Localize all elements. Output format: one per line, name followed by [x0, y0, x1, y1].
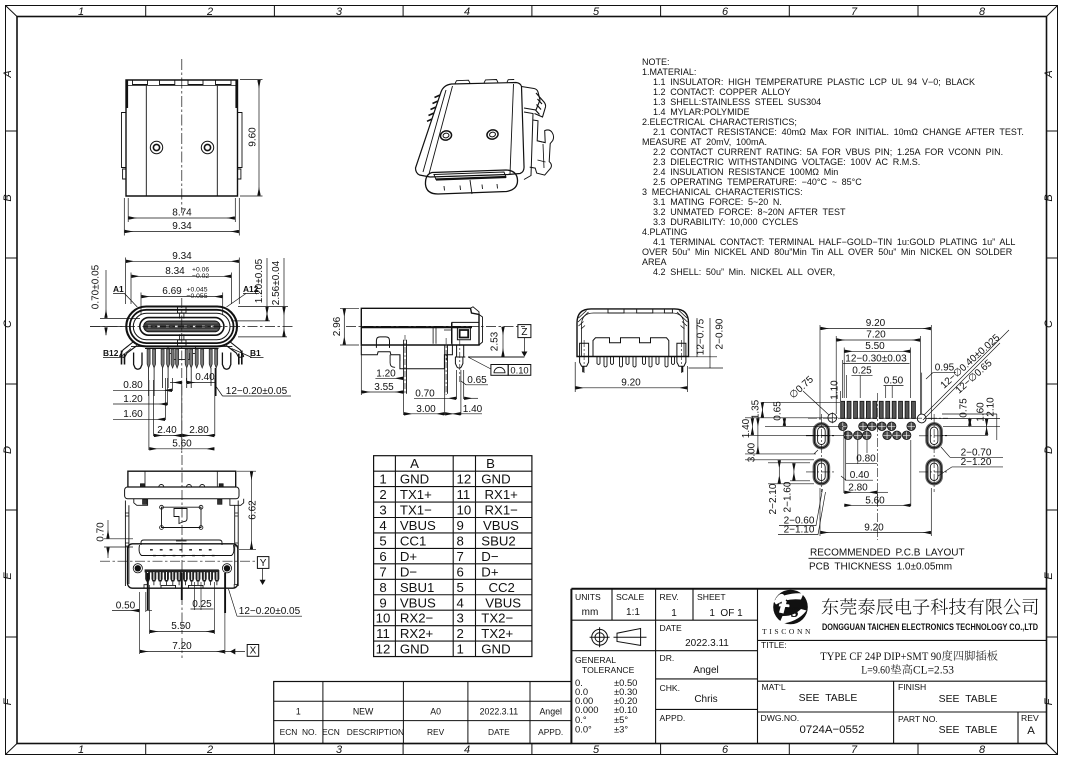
- svg-text:VBUS: VBUS: [400, 595, 436, 610]
- smt legs: [147, 349, 218, 368]
- svg-text:3.1 MATING FORCE: 5~20 N.: 3.1 MATING FORCE: 5~20 N.: [653, 197, 782, 207]
- svg-text:4.1 TERMINAL CONTACT: TERMI: 4.1 TERMINAL CONTACT: TERMINAL HALF−GOLD…: [653, 237, 1015, 247]
- side rails: [125, 501, 238, 587]
- svg-text:1:1: 1:1: [626, 607, 640, 618]
- CJK-TEXT: [822, 598, 1038, 615]
- right flange: [238, 113, 243, 180]
- right ext lines: [689, 318, 724, 368]
- svg-text:2−1.60: 2−1.60: [783, 481, 794, 512]
- svg-text:3.2 UNMATED FORCE: 8~20N A: 3.2 UNMATED FORCE: 8~20N AFTER TEST: [653, 207, 846, 217]
- VIEW-TOPFRONT: [122, 59, 263, 236]
- svg-text:1 OF 1: 1 OF 1: [709, 608, 743, 619]
- dim 2.56±0.04 right: [238, 258, 287, 337]
- thick corner strokes: [127, 80, 237, 108]
- svg-text:0.40: 0.40: [195, 372, 215, 383]
- svg-text:1.1 INSULATOR: HIGH TEMPERA: 1.1 INSULATOR: HIGH TEMPERATURE PLASTIC …: [653, 77, 975, 87]
- svg-text:NEW: NEW: [353, 707, 374, 717]
- svg-text:9: 9: [457, 518, 464, 533]
- svg-text:D+: D+: [400, 549, 418, 564]
- VIEW-ISO: [416, 80, 554, 195]
- svg-text:ECN NO.: ECN NO.: [280, 727, 317, 737]
- svg-text:2.10: 2.10: [986, 397, 997, 417]
- datum Z flag: [468, 325, 531, 357]
- svg-text:6: 6: [457, 564, 464, 579]
- svg-text:0.0°: 0.0°: [575, 724, 592, 735]
- side legs: [580, 343, 686, 366]
- svg-text:MATʻL: MATʻL: [762, 682, 786, 692]
- svg-text:−0.02: −0.02: [192, 273, 209, 280]
- svg-text:1.3 SHELL:STAINLESS STEEL S: 1.3 SHELL:STAINLESS STEEL SUS304: [653, 97, 821, 107]
- svg-text:11: 11: [376, 626, 390, 641]
- svg-text:DATE: DATE: [660, 623, 683, 633]
- dim 0.65: [461, 381, 488, 385]
- corner hatch left: [578, 311, 589, 330]
- svg-text:C: C: [2, 320, 14, 328]
- svg-text:2022.3.11: 2022.3.11: [480, 707, 519, 717]
- svg-text:6: 6: [722, 744, 729, 756]
- svg-text:3.00: 3.00: [747, 442, 758, 462]
- svg-text:1.10: 1.10: [830, 380, 841, 400]
- svg-text:2.5 OPERATING TEMPERATURE:: 2.5 OPERATING TEMPERATURE: −40°C ~ 85°C: [653, 177, 862, 187]
- rivet circles: [150, 141, 213, 153]
- wing latches: [134, 499, 244, 506]
- iso rivet ellipses: [439, 130, 452, 142]
- svg-text:2.40: 2.40: [157, 425, 177, 436]
- centerline: [181, 59, 183, 213]
- svg-text:1: 1: [671, 608, 677, 619]
- dip pins: [404, 340, 448, 394]
- svg-text:RX1−: RX1−: [485, 503, 519, 518]
- svg-text:FINISH: FINISH: [898, 682, 926, 692]
- svg-text:OVER 50u” Min NICKEL AND: OVER 50u” Min NICKEL AND 80u”Min Tin ALL…: [642, 247, 1013, 257]
- svg-text:SEE TABLE: SEE TABLE: [939, 725, 998, 736]
- svg-text:SEE TABLE: SEE TABLE: [799, 693, 858, 704]
- top band: [128, 471, 236, 487]
- svg-text:0.65: 0.65: [773, 401, 784, 421]
- svg-text:RX1+: RX1+: [485, 487, 519, 502]
- svg-text:1: 1: [296, 707, 301, 717]
- svg-text:1.35: 1.35: [751, 399, 762, 419]
- REV-TABLE: [274, 682, 572, 744]
- svg-text:2−1.10: 2−1.10: [784, 525, 815, 536]
- VIEW-SIDE: [332, 307, 531, 415]
- svg-text:2.80: 2.80: [848, 482, 868, 493]
- shell side outline: [361, 308, 479, 345]
- dim 2.96: [340, 308, 359, 345]
- contacts dashes: [148, 325, 216, 327]
- svg-text:5: 5: [593, 6, 600, 18]
- right small dims: [926, 414, 1000, 440]
- svg-text:4.PLATING: 4.PLATING: [642, 227, 687, 237]
- svg-text:D−: D−: [400, 564, 418, 579]
- svg-text:PCB THICKNESS 1.0±0.05mm: PCB THICKNESS 1.0±0.05mm: [809, 562, 952, 573]
- through holes row2: [844, 431, 911, 440]
- svg-text:NOTE:: NOTE:: [642, 57, 670, 67]
- svg-text:Chris: Chris: [694, 694, 717, 705]
- svg-text:5.60: 5.60: [865, 495, 885, 506]
- svg-text:0.10: 0.10: [510, 364, 528, 375]
- svg-text:A: A: [2, 70, 14, 78]
- insulator body: [593, 338, 669, 357]
- iso body outline: [416, 83, 525, 178]
- svg-text:2: 2: [379, 487, 386, 502]
- tongue thick line: [361, 326, 472, 328]
- svg-text:B: B: [486, 456, 495, 471]
- dim 9.20 pcbtop: [820, 325, 931, 420]
- svg-text:7.20: 7.20: [172, 641, 192, 652]
- svg-text:UNITS: UNITS: [575, 592, 601, 602]
- dim 0.95: [922, 372, 956, 414]
- center seam ribs: [178, 307, 187, 347]
- middle square with corner circles: [162, 507, 202, 527]
- top-right step: [471, 307, 483, 345]
- svg-text:8.74: 8.74: [172, 208, 192, 219]
- side wings: [120, 342, 244, 365]
- svg-text:GND: GND: [400, 472, 429, 487]
- centerline side: [346, 325, 525, 327]
- profile tolerance frame: [468, 357, 531, 375]
- svg-text:SCALE: SCALE: [616, 592, 644, 602]
- svg-text:Angel: Angel: [539, 707, 562, 717]
- svg-text:9.20: 9.20: [864, 523, 884, 534]
- svg-text:5: 5: [593, 744, 600, 756]
- svg-text:1.4 MYLAR:POLYMIDE: 1.4 MYLAR:POLYMIDE: [653, 107, 750, 117]
- svg-text:s: s: [790, 600, 799, 622]
- svg-text:D: D: [1043, 446, 1055, 454]
- svg-text:E: E: [2, 572, 14, 580]
- svg-text:TYPE CF 24P DIP+SMT 90: TYPE CF 24P DIP+SMT 90: [820, 650, 941, 663]
- svg-text:3 MECHANICAL CHARACTERISTICS: 3 MECHANICAL CHARACTERISTICS:: [642, 187, 803, 197]
- svg-text:DATE: DATE: [488, 727, 510, 737]
- svg-text:5.60: 5.60: [172, 439, 192, 450]
- dim 6.62: [237, 471, 256, 549]
- svg-text:L=9.60: L=9.60: [861, 664, 890, 677]
- svg-text:3: 3: [379, 503, 386, 518]
- svg-text:D+: D+: [481, 564, 499, 579]
- datum dots: [135, 565, 141, 571]
- svg-text:2: 2: [206, 744, 213, 756]
- dim 1.20±0.05 right: [231, 258, 288, 321]
- svg-text:MEASURE AT 20mV, 100mA.: MEASURE AT 20mV, 100mA.: [642, 137, 767, 147]
- corner oval pads: [814, 424, 941, 484]
- svg-text:3.55: 3.55: [374, 382, 394, 393]
- svg-text:D: D: [2, 446, 14, 454]
- left lower dims: [745, 460, 826, 535]
- svg-text:7: 7: [851, 6, 858, 18]
- lower block: [128, 544, 238, 588]
- iso seam lines: [423, 84, 514, 174]
- left flange: [122, 113, 127, 180]
- position circles: [827, 412, 926, 423]
- svg-text:DWG.NO.: DWG.NO.: [761, 713, 800, 723]
- svg-text:VBUS: VBUS: [483, 518, 519, 533]
- svg-text:CHK.: CHK.: [660, 683, 681, 693]
- dim 9.34 top: [126, 258, 240, 305]
- svg-text:6: 6: [722, 6, 729, 18]
- svg-text:2.2 CONTACT CURRENT RATING:: 2.2 CONTACT CURRENT RATING: 5A FOR VBUS …: [653, 147, 1003, 157]
- left dims: [745, 402, 844, 454]
- iso mouth inner band: [434, 172, 506, 180]
- dip pins thin: [149, 368, 211, 396]
- svg-text:DONGGUAN TAICHEN ELECTRONICS T: DONGGUAN TAICHEN ELECTRONICS TECHNOLOGY …: [822, 622, 1038, 633]
- svg-text:5: 5: [379, 533, 386, 548]
- teeth row: [145, 569, 219, 572]
- svg-text:1.20: 1.20: [376, 368, 396, 379]
- svg-text:1.60: 1.60: [123, 409, 143, 420]
- teeth comb: [597, 357, 675, 368]
- svg-text:GND: GND: [481, 642, 510, 657]
- iso mouth pegs: [444, 180, 498, 194]
- centerlines: [181, 298, 183, 455]
- svg-text:7: 7: [379, 564, 386, 579]
- svg-text:4: 4: [464, 6, 470, 18]
- leg centerlines: [584, 340, 681, 375]
- svg-text:0.25: 0.25: [852, 365, 872, 376]
- svg-text:12−0.20±0.05: 12−0.20±0.05: [239, 606, 301, 617]
- svg-text:2−1.20: 2−1.20: [961, 457, 992, 468]
- dim 8.74: [128, 198, 235, 222]
- svg-text:11: 11: [457, 487, 471, 502]
- svg-text:2−0.90: 2−0.90: [715, 318, 726, 349]
- svg-text:Y: Y: [260, 558, 267, 569]
- dim 0.25: [852, 375, 873, 398]
- svg-text:2: 2: [206, 6, 213, 18]
- datum X: [247, 645, 259, 657]
- svg-text:2.96: 2.96: [332, 316, 343, 336]
- inner vertical lines: [146, 86, 217, 197]
- svg-text:8: 8: [979, 6, 986, 18]
- dim 12-0.20 bottom: [229, 589, 303, 616]
- svg-text:CC1: CC1: [400, 533, 426, 548]
- svg-text:VBUS: VBUS: [400, 518, 436, 533]
- dim 9.20 rear: [575, 362, 687, 392]
- thick ext stubs: [148, 573, 225, 613]
- svg-text:SEE TABLE: SEE TABLE: [939, 694, 998, 705]
- dim 6.69: [141, 293, 223, 316]
- svg-text:2.1 CONTACT RESISTANCE: 40m: 2.1 CONTACT RESISTANCE: 40mΩ Max FOR INI…: [653, 127, 1024, 137]
- bottom bracket: [361, 345, 452, 369]
- svg-text:APPD.: APPD.: [660, 713, 686, 723]
- svg-text:0.80: 0.80: [856, 453, 876, 464]
- svg-text:9.34: 9.34: [172, 221, 192, 232]
- tongue: [140, 318, 224, 336]
- dim 1.40: [445, 370, 482, 415]
- svg-text:±3°: ±3°: [614, 724, 628, 735]
- VIEW-FRONT: [90, 251, 293, 455]
- svg-text:2022.3.11: 2022.3.11: [685, 638, 729, 649]
- svg-text:1.20: 1.20: [123, 394, 143, 405]
- svg-text:3.00: 3.00: [416, 404, 436, 415]
- svg-text:5: 5: [457, 580, 464, 595]
- contact dash rows: [150, 549, 216, 551]
- svg-text:B: B: [1043, 194, 1055, 201]
- svg-text:2.53: 2.53: [490, 331, 501, 351]
- dim 2.53: [502, 327, 504, 357]
- svg-text:2−2.10: 2−2.10: [768, 483, 779, 514]
- iso top notches: [455, 80, 514, 84]
- svg-text:7: 7: [851, 744, 858, 756]
- svg-text:9: 9: [379, 595, 386, 610]
- dim 8.34: [131, 273, 232, 305]
- dim 7.20: [140, 592, 245, 654]
- svg-text:GENERAL: GENERAL: [575, 655, 616, 665]
- svg-text:1.40: 1.40: [741, 418, 752, 438]
- centerlines: [181, 455, 183, 658]
- svg-text:3: 3: [336, 6, 343, 18]
- corner hatch right: [677, 311, 688, 330]
- svg-text:9.20: 9.20: [866, 318, 886, 329]
- dim 1.20 side: [375, 377, 403, 379]
- big pegs: [134, 353, 142, 370]
- svg-text:CL=2.53: CL=2.53: [913, 664, 954, 677]
- svg-text:TX1+: TX1+: [400, 487, 432, 502]
- top edge tabs: [133, 80, 232, 85]
- svg-text:A: A: [1043, 70, 1055, 78]
- bottom feet: [161, 585, 203, 588]
- svg-text:C: C: [1043, 320, 1055, 328]
- svg-text:0.40: 0.40: [850, 470, 870, 481]
- svg-text:CC2: CC2: [489, 580, 515, 595]
- left bump: [376, 337, 389, 348]
- svg-text:1: 1: [78, 6, 84, 18]
- svg-text:mm: mm: [582, 607, 599, 618]
- svg-text:1.20±0.05: 1.20±0.05: [254, 258, 265, 303]
- svg-text:0.80: 0.80: [123, 380, 143, 391]
- svg-text:3: 3: [336, 744, 343, 756]
- svg-text:4: 4: [457, 595, 464, 610]
- svg-text:D−: D−: [481, 549, 499, 564]
- svg-text:SBU1: SBU1: [400, 580, 434, 595]
- svg-text:10: 10: [376, 611, 391, 626]
- through holes row1: [839, 422, 916, 431]
- svg-text:2.4 INSULATION RESISTANCE 1: 2.4 INSULATION RESISTANCE 100MΩ Min: [653, 167, 838, 177]
- svg-text:A: A: [410, 456, 419, 471]
- bottom center dims: [820, 431, 931, 536]
- shell oval outer: [126, 307, 237, 347]
- svg-text:12−0.30±0.03: 12−0.30±0.03: [845, 354, 907, 365]
- dim 5.50: [844, 348, 910, 399]
- label A1: [103, 284, 261, 358]
- dim 0.50: [884, 386, 904, 399]
- smt tab box: [452, 322, 479, 345]
- svg-text:Z: Z: [521, 327, 527, 338]
- svg-text:AREA: AREA: [642, 257, 667, 267]
- svg-text:0.65: 0.65: [467, 375, 487, 386]
- svg-text:TOLERANCE: TOLERANCE: [582, 665, 635, 675]
- svg-text:GND: GND: [481, 472, 510, 487]
- hole crosses: [839, 423, 915, 440]
- VIEW-REAR: [575, 309, 725, 392]
- svg-text:1: 1: [78, 744, 84, 756]
- svg-text:12: 12: [376, 642, 391, 657]
- svg-text:6: 6: [379, 549, 386, 564]
- svg-text:1.2 CONTACT: COPPER ALLOY: 1.2 CONTACT: COPPER ALLOY: [653, 87, 790, 97]
- svg-text:GND: GND: [400, 642, 429, 657]
- svg-text:1.MATERIAL:: 1.MATERIAL:: [642, 67, 696, 77]
- svg-text:4.2 SHELL: 50u” Min. NICKE: 4.2 SHELL: 50u” Min. NICKEL ALL OVER,: [653, 267, 835, 277]
- smt pads 12x: [841, 401, 916, 418]
- svg-text:2.ELECTRICAL CHARACTERISTICS;: 2.ELECTRICAL CHARACTERISTICS;: [642, 117, 797, 127]
- svg-text:TX2+: TX2+: [481, 626, 513, 641]
- svg-text:VBUS: VBUS: [485, 595, 521, 610]
- svg-text:DR.: DR.: [660, 653, 675, 663]
- svg-text:REV.: REV.: [660, 592, 679, 602]
- svg-text:9.20: 9.20: [621, 377, 641, 388]
- svg-text:12−0.75: 12−0.75: [696, 318, 707, 355]
- svg-text:ECN DESCRIPTION: ECN DESCRIPTION: [322, 727, 404, 737]
- dim 5.50: [149, 582, 214, 634]
- svg-text:0.70: 0.70: [96, 522, 107, 542]
- svg-text:2.56±0.04: 2.56±0.04: [271, 260, 282, 305]
- svg-text:1: 1: [379, 472, 386, 487]
- svg-text:0724A−0552: 0724A−0552: [800, 724, 865, 736]
- iso left serration: [427, 95, 440, 121]
- svg-text:8: 8: [979, 744, 986, 756]
- VIEW-BOTTOM: [96, 455, 303, 658]
- svg-text:6.62: 6.62: [248, 500, 259, 520]
- svg-text:0.70±0.05: 0.70±0.05: [91, 264, 102, 309]
- svg-text:4: 4: [464, 744, 470, 756]
- svg-text:RECOMMENDED P.C.B LAYOUT: RECOMMENDED P.C.B LAYOUT: [810, 548, 965, 559]
- dim 9.34: [124, 198, 239, 236]
- svg-text:A0: A0: [430, 707, 441, 717]
- svg-text:B1: B1: [250, 348, 261, 358]
- svg-text:0.25: 0.25: [192, 599, 212, 610]
- svg-text:0.50: 0.50: [884, 376, 904, 387]
- svg-text:B: B: [2, 194, 14, 201]
- svg-text:1.40: 1.40: [463, 404, 483, 415]
- datum Y: [257, 557, 269, 582]
- dim 9.60: [240, 80, 263, 197]
- svg-text:REV: REV: [427, 727, 445, 737]
- svg-text:0.50: 0.50: [116, 601, 136, 612]
- svg-text:1: 1: [457, 642, 464, 657]
- iso right top block: [522, 87, 541, 111]
- rear shell outline: [577, 309, 689, 357]
- svg-text:Angel: Angel: [693, 665, 719, 676]
- svg-text:0.75: 0.75: [958, 398, 969, 418]
- svg-text:SHEET: SHEET: [697, 592, 726, 602]
- svg-text:7: 7: [457, 549, 464, 564]
- svg-text:APPD.: APPD.: [538, 727, 563, 737]
- svg-text:SBU2: SBU2: [481, 533, 515, 548]
- svg-text:RX2−: RX2−: [400, 611, 434, 626]
- dim 0.70±0.05 left: [90, 270, 140, 335]
- svg-text:TX1−: TX1−: [400, 503, 432, 518]
- svg-text:3: 3: [457, 611, 464, 626]
- svg-text:PART NO.: PART NO.: [898, 714, 938, 724]
- dim 0.70 bottom: [104, 520, 133, 558]
- svg-text:TISCONN: TISCONN: [762, 627, 813, 636]
- iso mouth stadium: [425, 170, 517, 194]
- dim 7.20: [836, 336, 920, 414]
- svg-text:0.70: 0.70: [415, 388, 435, 399]
- svg-text:10: 10: [457, 503, 472, 518]
- svg-text:REV: REV: [1021, 713, 1039, 723]
- dims 2-0.70 2-1.20: [938, 447, 1003, 476]
- dim 12-0.30: [843, 360, 910, 398]
- svg-text:2: 2: [457, 626, 464, 641]
- dim 3.00: [404, 394, 445, 415]
- svg-text:4: 4: [379, 518, 386, 533]
- svg-text:5.50: 5.50: [171, 621, 191, 632]
- shell body outline: [126, 80, 238, 196]
- svg-text:B12: B12: [103, 348, 119, 358]
- svg-text:TITLE:: TITLE:: [761, 640, 787, 650]
- svg-text:A1: A1: [113, 284, 124, 294]
- svg-text:2.3 DIELECTRIC WITHSTANDING: 2.3 DIELECTRIC WITHSTANDING VOLTAGE: 100…: [653, 157, 920, 167]
- pcb centerlines: [806, 393, 949, 540]
